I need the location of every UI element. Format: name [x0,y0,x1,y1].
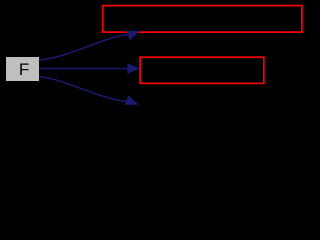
svg-text:F: F [19,60,29,79]
